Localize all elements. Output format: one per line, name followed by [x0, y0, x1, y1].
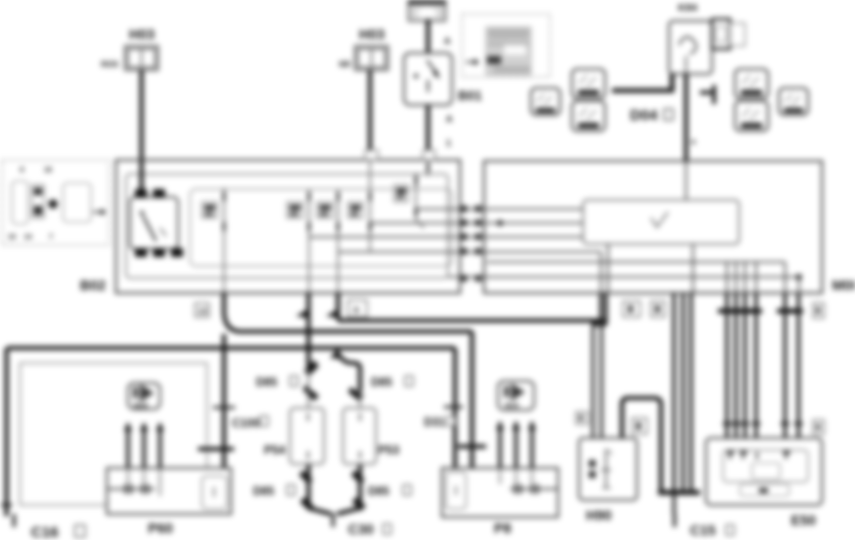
svg-text:D85: D85	[256, 377, 278, 389]
svg-text:H03: H03	[129, 26, 155, 42]
svg-text:D04: D04	[630, 107, 658, 124]
svg-text:C30: C30	[348, 521, 374, 537]
svg-text:NR: NR	[339, 60, 351, 69]
svg-text:7: 7	[49, 234, 53, 241]
svg-text:C15: C15	[690, 522, 716, 538]
svg-text:K84: K84	[678, 2, 697, 14]
svg-text:8: 8	[20, 167, 24, 174]
svg-text:P60: P60	[148, 520, 173, 536]
svg-text:A: A	[444, 36, 451, 46]
svg-text:H03: H03	[359, 26, 385, 42]
svg-text:P53: P53	[378, 443, 400, 457]
svg-text:B02: B02	[80, 277, 106, 293]
svg-text:B01: B01	[458, 88, 482, 103]
svg-text:18: 18	[44, 167, 52, 174]
svg-text:14: 14	[24, 234, 32, 241]
svg-text:P54: P54	[264, 443, 286, 457]
svg-text:E50: E50	[791, 512, 816, 528]
svg-text:B25: B25	[134, 401, 148, 410]
svg-text:B25: B25	[505, 401, 519, 410]
svg-text:D31: D31	[424, 417, 446, 429]
svg-text:10: 10	[8, 234, 16, 241]
svg-text:H90: H90	[586, 507, 612, 523]
svg-text:ROS: ROS	[101, 60, 119, 69]
svg-text:13: 13	[198, 307, 207, 316]
svg-text:A: A	[446, 114, 453, 124]
svg-text:D85: D85	[368, 486, 390, 498]
svg-text:P8: P8	[494, 520, 511, 536]
svg-text:M0I: M0I	[832, 277, 855, 293]
svg-text:a: a	[691, 137, 696, 146]
svg-text:D85: D85	[371, 377, 393, 389]
svg-text:C100: C100	[232, 418, 260, 430]
svg-text:8: 8	[354, 306, 359, 315]
svg-text:D85: D85	[253, 486, 275, 498]
svg-text:1: 1	[446, 138, 451, 148]
svg-text:C16: C16	[31, 524, 59, 540]
